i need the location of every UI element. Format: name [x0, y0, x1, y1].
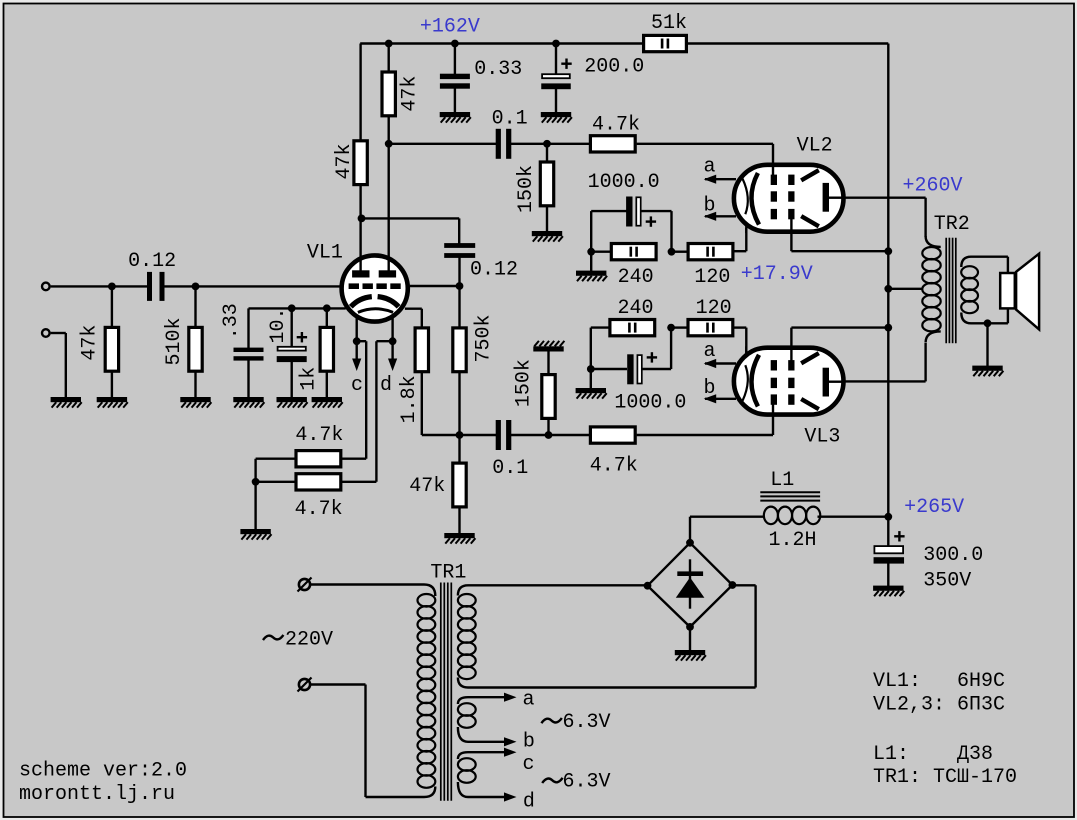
ground 1k resistor	[312, 397, 342, 402]
transformer TR1 HV secondary winding	[458, 585, 468, 595]
wire 0.33 cap stem	[454, 44, 456, 76]
node dots	[108, 283, 116, 291]
capacitor 10. electrolytic cathode	[278, 347, 306, 351]
ground 200.0 cap	[541, 112, 571, 117]
svg-text:morontt.lj.ru: morontt.lj.ru	[19, 783, 175, 806]
wire VL2 heater b	[705, 215, 736, 217]
wire bridge bottom to ground	[689, 627, 691, 651]
svg-text:0.1: 0.1	[492, 457, 528, 480]
svg-text:120: 120	[696, 297, 732, 320]
svg-text:1.2H: 1.2H	[769, 529, 817, 552]
svg-text:240: 240	[618, 266, 654, 289]
tube VL2 cathode lead	[745, 225, 747, 233]
tube VL3 anode	[823, 368, 829, 397]
wire VL2 anode to TR2 primary top	[830, 196, 926, 198]
wire 150k (lower) stem	[547, 418, 549, 435]
resistor 4.7k grid stopper (lower)	[590, 427, 635, 443]
wire +265V bus vertical	[887, 44, 889, 518]
svg-text:+17.9V: +17.9V	[741, 263, 813, 286]
label ~220V	[263, 635, 283, 640]
wire 200.0 cap stem	[555, 44, 557, 76]
capacitor 0.1 coupling (lower)	[496, 420, 501, 450]
tube VL3 grid 1 dashes	[771, 394, 777, 404]
capacitor 0.1 coupling (upper)	[496, 129, 501, 159]
wire 0.12 (right) cap to node	[458, 257, 460, 287]
wire 1000.0 (upper) left arm	[591, 210, 627, 212]
ground 240 upper	[576, 271, 606, 276]
wire 47k tail resistor stems	[458, 435, 460, 463]
capacitor 0.12 phase-splitter coupling	[444, 243, 475, 248]
resistor 150k grid (lower)	[542, 375, 555, 419]
tube VL3 cathode arc	[751, 355, 759, 407]
resistor 120 cathode (lower)	[688, 320, 733, 336]
svg-text:47k: 47k	[399, 76, 422, 112]
wire 750k stems	[458, 286, 460, 328]
transformer TR1 heater winding a-b	[458, 697, 468, 704]
wire heater tap b	[468, 741, 505, 743]
wire 1k cathode resistor stems	[326, 308, 328, 327]
wire 150k (upper) stem	[546, 144, 548, 162]
svg-text:scheme ver:2.0: scheme ver:2.0	[19, 759, 187, 782]
wire left anode column VL1	[359, 184, 361, 271]
resistor 51k feed	[644, 35, 687, 51]
ground 47k tail	[444, 533, 474, 538]
wire ground stem 240 upper	[590, 252, 592, 271]
svg-text:0.33: 0.33	[474, 58, 522, 81]
wire rail down to 47k anode resistor (right)	[388, 44, 390, 73]
wire 1000.0 (upper) right arm	[641, 210, 672, 212]
wire 0.1 cap (upper) to 150k node	[511, 143, 547, 145]
capacitor 1000.0 electrolytic (lower)	[627, 354, 633, 384]
bridge rectifier diamond	[648, 543, 733, 627]
tube VL1 double triode body	[342, 255, 408, 321]
svg-text:220V: 220V	[285, 629, 333, 652]
wire heater tap d	[468, 796, 505, 798]
transformer TR2 core	[945, 238, 947, 344]
plus sign 1000.0 lower	[647, 356, 657, 358]
tube VL1 cathode right	[378, 297, 399, 307]
ground bridge	[675, 650, 705, 655]
plus sign 1000.0 upper	[646, 220, 656, 222]
svg-text:0.12: 0.12	[470, 258, 518, 281]
tube VL3 cathode lead	[745, 346, 747, 354]
svg-text:a: a	[704, 340, 716, 363]
wire 120 to 240/1000.0 node (lower)	[671, 326, 687, 328]
wire 300.0 filter cap stem	[887, 517, 889, 546]
tube VL2 anode	[823, 183, 829, 212]
svg-text:4.7k: 4.7k	[592, 114, 640, 137]
wire 240 (lower) left to ground node	[591, 326, 610, 328]
resistor 47k input	[105, 327, 118, 371]
svg-text:200.0: 200.0	[584, 56, 644, 79]
svg-text:b: b	[704, 377, 716, 400]
resistor 240 cathode (upper)	[611, 244, 656, 260]
capacitor 300.0 electrolytic filter	[874, 546, 903, 553]
tube VL3 grid 2 lead	[790, 347, 792, 362]
wire VL2 heater a	[705, 178, 736, 180]
wire TR2 secondary top to speaker	[961, 257, 1008, 267]
wire 4.7k to VL2 grid	[637, 143, 773, 145]
svg-text:1000.0: 1000.0	[614, 391, 686, 414]
wire L1 node to bridge top	[689, 517, 691, 543]
svg-text:4.7k: 4.7k	[590, 454, 638, 477]
ground 510k	[180, 397, 210, 402]
capacitor 200.0 electrolytic rail	[542, 74, 570, 78]
terminal mains input 2	[299, 679, 310, 690]
tube VL1 anode right	[379, 270, 396, 277]
svg-text:1000.0: 1000.0	[588, 171, 660, 194]
wire 240 (upper) left to ground node	[591, 250, 611, 252]
wire right anode column VL1	[388, 112, 390, 271]
wire VL3 heater a	[705, 362, 736, 364]
capacitor 0.12 input coupling	[147, 272, 152, 301]
terminal mains input 1	[299, 579, 310, 590]
transformer TR1 core	[440, 583, 442, 801]
wire 120 to 240/1000.0 node (upper)	[672, 250, 688, 252]
speaker	[1000, 273, 1015, 308]
svg-text:TR2: TR2	[934, 213, 970, 236]
capacitor .33 cathode bypass	[234, 348, 264, 352]
wire bridge right down and to TR1 HV secondary bottom	[732, 584, 755, 586]
wire anode node to 0.1 coupling cap (upper)	[389, 143, 496, 145]
tube VL3 beam tetrode body	[734, 346, 845, 415]
wire VL3 cathode to 120 resistor	[745, 328, 747, 353]
wire input terminal 2 to ground	[51, 332, 66, 334]
tube VL3 grid 2 dashes	[788, 394, 794, 404]
wire VL1 second grid to 0.12/750k node	[410, 285, 460, 287]
resistor 4.7k hum balance (bottom)	[296, 474, 341, 490]
svg-text:6.3V: 6.3V	[563, 771, 611, 794]
svg-text:0.1: 0.1	[492, 108, 528, 131]
svg-text:150k: 150k	[515, 165, 538, 213]
wire heater c to hum-balance resistor	[357, 340, 367, 342]
wire VL1 heater pin d	[391, 318, 393, 342]
wire TR2 secondary bottom to speaker	[961, 313, 1008, 324]
wire VL3 heater b	[705, 398, 736, 400]
wire heater tap a	[468, 696, 505, 698]
svg-text:10.: 10.	[267, 307, 290, 343]
svg-text:b: b	[704, 195, 716, 218]
tube VL1 cathode left	[351, 297, 372, 307]
tube VL1 grid dashes	[349, 283, 359, 289]
svg-text:51k: 51k	[651, 12, 687, 35]
wire VL1 right cathode to 1.8k	[405, 308, 422, 310]
tube VL2 grid 1 dashes	[771, 175, 777, 185]
wire VL2 cathode to 120 resistor	[745, 228, 747, 251]
tube VL3 anode lead	[829, 381, 845, 383]
resistor 750k	[453, 328, 466, 372]
svg-text:350V: 350V	[923, 569, 971, 592]
wire VL1 heater pin c	[356, 318, 358, 342]
wire VL3 screen grid to +265V bus	[790, 328, 792, 361]
svg-text:47k: 47k	[79, 325, 102, 361]
svg-text:b: b	[523, 731, 535, 754]
wire input grid VL1	[51, 285, 148, 287]
wire bridge left to TR1 HV secondary	[468, 584, 648, 586]
tube VL2 beam plates	[801, 170, 819, 180]
wire 10. electrolytic stems	[291, 308, 293, 347]
plus sign 10. cap	[297, 336, 307, 338]
svg-text:c: c	[351, 374, 363, 397]
wire .33 cathode cap stems	[247, 308, 249, 349]
svg-text:+260V: +260V	[903, 175, 963, 198]
resistor 47k anode load (left)	[354, 141, 367, 185]
svg-text:L1: Д38: L1: Д38	[873, 743, 993, 766]
svg-text:0.12: 0.12	[128, 250, 176, 273]
svg-text:240: 240	[618, 297, 654, 320]
resistor 47k tail	[453, 463, 466, 507]
ground 150k upper	[532, 231, 562, 236]
svg-text:+162V: +162V	[420, 16, 480, 39]
terminal input 1	[42, 283, 50, 291]
wire 0.12 input cap to VL1 grid	[164, 285, 340, 287]
svg-text:510k: 510k	[163, 317, 186, 365]
resistor 4.7k grid stopper (upper)	[590, 136, 635, 152]
svg-text:+265V: +265V	[904, 496, 964, 519]
wire speaker ground stem	[986, 323, 988, 366]
resistor 1.8k	[415, 328, 428, 372]
svg-text:6.3V: 6.3V	[563, 711, 611, 734]
transformer TR2 primary winding	[926, 236, 941, 247]
svg-text:47k: 47k	[333, 143, 356, 179]
terminal input 2	[42, 329, 50, 337]
tube VL1 heater	[358, 309, 393, 313]
label ~6.3V first	[541, 718, 561, 723]
wire 150k node to 4.7k grid stopper (upper)	[547, 143, 590, 145]
transformer TR1 primary winding	[424, 585, 435, 597]
inductor L1 core	[760, 491, 820, 493]
svg-text:4.7k: 4.7k	[295, 424, 343, 447]
resistor 510k grid leak	[189, 327, 202, 371]
svg-text:VL1: 6Н9С: VL1: 6Н9С	[873, 670, 1005, 693]
svg-text:47k: 47k	[409, 475, 445, 498]
tube VL1 anode left	[352, 270, 369, 277]
resistor 4.7k hum balance (top)	[296, 451, 341, 467]
wire mains terminal 1 to TR1 primary	[310, 583, 424, 585]
transformer TR2 secondary winding	[961, 266, 978, 278]
capacitor 0.33 rail bypass	[440, 74, 470, 79]
ground .33 cap	[233, 397, 263, 402]
svg-text:750k: 750k	[473, 314, 496, 362]
ground hum balance	[240, 529, 270, 534]
tube VL2 beam tetrode body	[734, 164, 845, 233]
inverted ground 150k lower	[533, 346, 563, 351]
wire +162V top rail	[360, 42, 888, 44]
wire L1 to +265V node	[818, 516, 889, 518]
wire left anode to 0.12 coupling cap (right)	[361, 217, 460, 219]
wire 4.7k (lower) to VL3 grid	[637, 434, 773, 436]
resistor 120 cathode (upper)	[688, 244, 733, 260]
wire heater d to hum-balance resistor	[376, 340, 392, 342]
tube VL2 anode lead	[829, 196, 845, 198]
tube VL3 grid 1 lead	[772, 403, 774, 415]
tube VL2 grid 1 lead	[772, 164, 774, 176]
wire 0.1 (lower) to 150k node	[511, 434, 549, 436]
ground 0.33 cap	[440, 112, 470, 117]
svg-text:150k: 150k	[513, 359, 536, 407]
ground 47k input	[97, 397, 127, 402]
wire 510k resistor stems	[194, 286, 196, 327]
wire VL3 anode to TR2 primary bottom	[830, 380, 926, 382]
svg-text:L1: L1	[770, 469, 794, 492]
svg-text:1.8k: 1.8k	[398, 375, 421, 423]
ground 240 lower	[576, 388, 606, 393]
wire VL1 cathode (left) node	[249, 307, 346, 309]
wire hum-balance resistors left side to ground	[256, 458, 295, 460]
svg-text:d: d	[380, 374, 392, 397]
wire node to 4.7k (lower)	[549, 434, 591, 436]
svg-text:TR1: ТСШ-170: TR1: ТСШ-170	[873, 766, 1017, 789]
inductor L1 winding	[764, 507, 778, 525]
svg-text:d: d	[523, 791, 535, 814]
tube VL2 cathode arc	[751, 173, 759, 225]
plus sign 300.0 cap	[894, 535, 904, 537]
tube VL2 heater arc	[743, 179, 748, 215]
svg-text:.33: .33	[220, 303, 243, 339]
svg-text:1k: 1k	[298, 367, 321, 391]
capacitor 1000.0 electrolytic (upper)	[626, 197, 632, 227]
diode inside bridge	[689, 559, 691, 608]
svg-text:c: c	[523, 753, 535, 776]
wire lower node to 0.1 cap (lower)	[460, 434, 497, 436]
wire 47k input resistor stems	[111, 286, 113, 327]
ground input terminal 2	[51, 397, 81, 402]
resistor 240 cathode (lower)	[610, 320, 655, 336]
svg-text:4.7k: 4.7k	[295, 498, 343, 521]
label ~6.3V second	[542, 778, 562, 783]
svg-text:a: a	[704, 156, 716, 179]
tube VL3 beam plates	[801, 399, 819, 409]
svg-text:VL1: VL1	[307, 241, 343, 264]
wire 1.8k bottom to lower node	[421, 370, 423, 435]
svg-text:120: 120	[694, 266, 730, 289]
wire mains terminal 2 to TR1 primary bottom	[310, 683, 365, 685]
wire 1000.0 (lower) left arm	[591, 368, 627, 370]
wire TR2 center tap	[888, 288, 923, 290]
tube VL3 heater arc	[743, 365, 748, 401]
wire heater tap c	[468, 751, 505, 753]
ground 10. cap	[277, 397, 307, 402]
resistor 47k anode load (right)	[382, 72, 395, 116]
svg-text:TR1: TR1	[430, 561, 466, 584]
wire 1000.0 (lower) right arm	[641, 368, 671, 370]
wire VL2 screen grid to +265V bus	[790, 218, 792, 251]
resistor 1k cathode	[320, 327, 333, 371]
plus sign 200.0 cap	[561, 63, 571, 65]
svg-text:VL3: VL3	[804, 425, 840, 448]
wire rail down to 47k anode resistor (left)	[359, 44, 361, 142]
svg-text:300.0: 300.0	[923, 544, 983, 567]
ground speaker return	[972, 366, 1002, 371]
transformer TR1 heater winding c-d	[458, 752, 468, 759]
tube VL2 grid 2 dashes	[788, 175, 794, 185]
svg-text:a: a	[523, 689, 535, 712]
ground 300.0 filter cap	[873, 586, 903, 591]
svg-text:VL2: VL2	[797, 134, 833, 157]
tube VL2 grid 2 lead	[790, 218, 792, 233]
svg-text:VL2,3: 6П3С: VL2,3: 6П3С	[873, 693, 1005, 716]
resistor 150k grid (upper)	[540, 162, 553, 206]
